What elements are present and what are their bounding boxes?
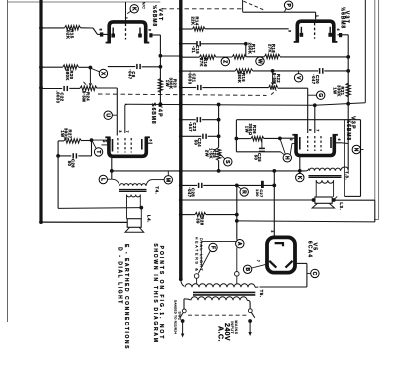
- wire R24 wiper arrow: [84, 68, 93, 87]
- speaker L3: [312, 197, 334, 208]
- label R25 1.5K 2W: [204, 148, 217, 159]
- wire feedback down: [57, 156, 59, 209]
- wire tuning post: [242, 0, 244, 12]
- node junction bus2-R14: [179, 27, 183, 31]
- wire T5 primary right down: [249, 302, 251, 309]
- label V3T: [344, 11, 350, 24]
- capacitor C6: [137, 64, 140, 69]
- label T4: [155, 186, 160, 194]
- wire heater column: [236, 185, 238, 239]
- resistor R23: [158, 79, 162, 93]
- node junction heatercol top: [235, 184, 239, 188]
- capacitor C28: [199, 183, 202, 188]
- border top edge line: [8, 1, 160, 3]
- label R14 22K: [191, 16, 200, 25]
- wire R22 to V3P grid corner: [278, 88, 308, 133]
- wire T5 primary left down: [183, 299, 185, 309]
- wire X to C6: [108, 66, 136, 68]
- switch SW2 left contact: [180, 309, 186, 318]
- label C25 50: [253, 153, 262, 162]
- svg-text:T: T: [95, 150, 101, 153]
- svg-text:C20: C20: [315, 75, 320, 84]
- wire R17 to R18: [246, 56, 264, 58]
- border left edge line: [7, 0, 9, 322]
- node M: [164, 171, 172, 184]
- svg-text:9: 9: [148, 29, 152, 31]
- node junction L3 right: [332, 198, 336, 202]
- node K top: [127, 5, 138, 14]
- svg-text:C6: C6: [131, 71, 136, 77]
- tube V3T cathode electrode: [300, 27, 304, 37]
- transformer T5 core: [193, 292, 255, 295]
- node junction bus2-R19: [179, 69, 183, 73]
- wire R15 left lead: [41, 27, 65, 29]
- svg-text:½6BM8: ½6BM8: [345, 119, 352, 141]
- label V4P type half 6BM8: [150, 102, 157, 124]
- potentiometer R22: [269, 85, 278, 89]
- node junction bus2-C23: [179, 118, 183, 122]
- capacitor C26 50: [73, 153, 76, 159]
- label SW2 GANGED: [173, 300, 181, 334]
- capacitor C24 50: [203, 134, 206, 139]
- svg-text:C: C: [311, 272, 317, 276]
- tube V5 anode electrode: [275, 243, 283, 246]
- wire C21 to R22: [202, 87, 268, 89]
- wire mains right arrow: [248, 321, 251, 336]
- svg-text:HEATERS &: HEATERS &: [194, 237, 198, 273]
- node junction bus2-screen wire: [179, 102, 183, 106]
- svg-text:W: W: [256, 59, 262, 64]
- label L4: [147, 215, 152, 223]
- pin number 1 of V3T: [315, 15, 319, 17]
- transformer T4 core: [119, 190, 147, 192]
- pin pad V4T pin 9: [149, 33, 152, 37]
- node junction bus2-C24: [179, 134, 183, 138]
- pin number 3 of V5: [270, 230, 274, 232]
- wire R19 to C20: [253, 70, 318, 72]
- wire R27 left corner: [58, 141, 64, 156]
- svg-text:6: 6: [336, 29, 340, 31]
- wire C22 left lead: [41, 88, 62, 90]
- svg-text:1W: 1W: [165, 80, 170, 87]
- wire C28 left lead: [181, 184, 197, 186]
- wire C28 to V5 rail: [203, 184, 274, 186]
- transformer T5 secondary: [181, 279, 307, 287]
- wire R16 to R17: [216, 56, 232, 58]
- svg-text:2: 2: [102, 140, 106, 142]
- label C24 50: [193, 138, 202, 147]
- label T3: [345, 171, 350, 180]
- svg-text:A: A: [236, 242, 242, 246]
- node junction mains left: [181, 319, 185, 323]
- node junction gnd-bus2: [179, 169, 183, 173]
- wire C20 to anode rail: [324, 70, 348, 72]
- capacitor C25 50: [259, 139, 265, 152]
- pin number 6 of V3P: [337, 139, 341, 141]
- svg-text:½6BM8: ½6BM8: [150, 102, 157, 124]
- pin number 7 of V5: [256, 260, 260, 262]
- note POINTS ON FIG.1: [158, 246, 164, 341]
- svg-text:N: N: [353, 148, 359, 152]
- capacitor C21: [198, 85, 201, 90]
- switch SW2 right contact: [248, 309, 254, 318]
- wire V4P anode pin stub: [146, 142, 152, 144]
- svg-text:100: 100: [255, 189, 259, 197]
- wire cathode pin wire: [92, 140, 112, 145]
- resistor R19: [235, 69, 253, 73]
- wire link down to g2 wire: [245, 44, 247, 57]
- svg-text:C28: C28: [191, 188, 196, 197]
- node junction R26-H: [278, 137, 282, 141]
- tube V4P grid dashed electrodes: [118, 138, 131, 153]
- wire screen feed long: [125, 103, 365, 106]
- svg-text:D - DIAL LIGHT: D - DIAL LIGHT: [117, 247, 123, 305]
- wire C21 left lead: [181, 87, 196, 89]
- svg-text:C25: C25: [257, 153, 262, 162]
- svg-text:H: H: [284, 156, 290, 160]
- node junction mains right: [248, 319, 252, 323]
- wire V3T anode to T3 rail: [337, 35, 348, 171]
- svg-text:R19: R19: [241, 73, 246, 82]
- svg-text:R20: R20: [69, 70, 74, 79]
- tube V4P envelope half-6BM8: [105, 137, 150, 156]
- wire C6 to anode rail: [142, 66, 161, 68]
- node junction C19-R17 link: [244, 42, 248, 46]
- node junction bus2-C28: [179, 184, 183, 188]
- pin pad V3T pin 6: [339, 33, 342, 37]
- svg-text:8: 8: [98, 29, 102, 31]
- svg-text:C21: C21: [191, 73, 196, 82]
- transformer T4 primary: [112, 179, 164, 186]
- note D DIAL LIGHT: [117, 247, 123, 305]
- node junction bus2 y56: [179, 54, 183, 58]
- node Z: [221, 57, 229, 65]
- node junction plate-rail y71: [346, 69, 350, 73]
- svg-text:6: 6: [149, 139, 153, 141]
- label R16 27K: [199, 58, 208, 67]
- svg-text:R28: R28: [199, 216, 204, 225]
- tube V4T envelope half-6BM8: [106, 22, 150, 43]
- wire V4T anode to down-rail: [153, 35, 161, 104]
- svg-text:R16: R16: [203, 58, 208, 67]
- label R21 330K 1W: [332, 85, 345, 97]
- speaker L4: [125, 219, 144, 233]
- svg-text:M: M: [165, 178, 171, 182]
- svg-text:R17: R17: [251, 44, 256, 53]
- svg-text:K: K: [296, 176, 302, 180]
- node junction bus2-C19: [179, 42, 183, 46]
- label V5: [312, 243, 318, 252]
- wire screen box top: [236, 119, 360, 121]
- pin number 9 of V3T: [288, 30, 292, 32]
- node B: [243, 265, 265, 274]
- wire speaker return right: [237, 200, 375, 222]
- resistor R27: [64, 139, 82, 143]
- node N: [352, 145, 363, 153]
- wire right loop down: [360, 120, 362, 197]
- wire A stub: [237, 240, 238, 241]
- wire grid top wire V3T: [243, 12, 316, 19]
- label N/C: [142, 2, 146, 9]
- wire screen to V3P pin 7: [314, 105, 316, 133]
- label R24 0.5M: [82, 91, 91, 102]
- wire R22 wiper arrow: [271, 71, 274, 86]
- resistor R17: [232, 55, 246, 59]
- svg-text:R26: R26: [252, 125, 257, 134]
- svg-text:R27: R27: [67, 129, 72, 138]
- wire V3P bottom pin: [299, 156, 301, 174]
- svg-text:R24: R24: [85, 92, 90, 101]
- label V3P: [350, 116, 356, 130]
- svg-text:6CA4: 6CA4: [307, 241, 313, 258]
- svg-text:N/C: N/C: [142, 2, 146, 9]
- svg-text:R: R: [241, 190, 247, 194]
- wire C23 left lead: [181, 119, 196, 121]
- label C28 .047: [187, 187, 196, 197]
- svg-text:L3.: L3.: [339, 202, 344, 210]
- label V4P: [157, 104, 163, 118]
- svg-text:7: 7: [256, 260, 260, 262]
- svg-text:2: 2: [289, 139, 293, 141]
- label C19 .01: [191, 45, 200, 54]
- svg-text:C24: C24: [197, 138, 202, 147]
- node junction screen-R25 branch: [217, 103, 221, 107]
- node junction box-R26: [235, 137, 239, 141]
- heater terminal left: [194, 274, 199, 284]
- svg-text:R15: R15: [69, 29, 74, 39]
- capacitor C23: [197, 117, 200, 122]
- wire C22 to R24: [69, 87, 80, 89]
- pin number 7 of V3P: [316, 129, 320, 131]
- wire C19 left lead: [181, 43, 197, 45]
- wire HT to V5 anode: [273, 171, 275, 238]
- svg-text:3: 3: [118, 130, 122, 132]
- dashed SW2 gang link: [188, 314, 247, 316]
- svg-text:T4.: T4.: [155, 186, 160, 194]
- node H: [280, 138, 292, 162]
- capacitor C27 100: [255, 181, 263, 198]
- svg-text:INPUT: INPUT: [230, 321, 234, 335]
- tube V4T grid dashed electrode: [125, 24, 127, 40]
- tube V3T anode electrode: [328, 27, 332, 37]
- wire right loop bottom: [334, 196, 361, 199]
- label V5 type 6CA4: [307, 241, 313, 258]
- node junction heatercol-R28: [235, 213, 239, 217]
- wire R25 to ground wire: [218, 161, 220, 171]
- label R26 390 1W: [244, 123, 257, 135]
- transformer T4 secondary: [127, 195, 142, 219]
- pin number 1 of V4T: [124, 17, 128, 19]
- potentiometer R24: [80, 86, 97, 91]
- label V3P type half 6BM8: [345, 119, 352, 141]
- node W: [256, 57, 264, 65]
- pin number 2 of V3P: [289, 139, 293, 141]
- wire ground HT long: [112, 170, 306, 172]
- wire R26 into V3P: [280, 137, 294, 139]
- resistor R25: [216, 148, 220, 161]
- wire R27 right lead: [82, 140, 92, 142]
- wire right loop left edge: [344, 120, 346, 197]
- pin pad V4T pin 8: [100, 32, 103, 36]
- tube V3P envelope half-6BM8: [292, 135, 338, 156]
- pin number 7 of V4P: [125, 131, 129, 133]
- svg-text:½6BM8: ½6BM8: [340, 7, 347, 29]
- wire C26 left lead: [58, 155, 71, 157]
- tube V4T cathode electrode: [111, 28, 115, 38]
- wire screen box left: [235, 120, 237, 152]
- heater terminal right: [235, 272, 240, 285]
- svg-text:DIAL LIGHT: DIAL LIGHT: [199, 238, 203, 272]
- label R17 250K: [247, 43, 256, 55]
- label L3: [339, 202, 344, 210]
- wire R24 to grid corner: [97, 88, 117, 115]
- wire V5 cathode out: [260, 263, 307, 287]
- wire R20 to wiper junction: [79, 66, 91, 68]
- svg-text:9: 9: [308, 129, 312, 131]
- label C22 .0033: [55, 91, 64, 104]
- label R18 27K: [267, 44, 276, 53]
- node junction C6-anode-rail: [159, 65, 163, 69]
- label R22 0.5M: [272, 73, 281, 84]
- svg-text:½6BM8: ½6BM8: [151, 5, 158, 27]
- dashed tuning gang line: [162, 8, 243, 10]
- svg-text:V4T: V4T: [157, 8, 163, 21]
- tube V5 6CA4 envelope: [267, 237, 295, 272]
- svg-text:7: 7: [316, 129, 320, 131]
- label R28 39: [195, 216, 204, 225]
- svg-text:R22: R22: [276, 74, 281, 83]
- node junction C26 left: [56, 154, 60, 158]
- node junction anode-rail upper: [159, 54, 163, 58]
- wire bus1 end to L4: [39, 220, 127, 224]
- node junction bus2-C21: [179, 86, 183, 90]
- node junction return-heater: [235, 219, 239, 223]
- pin number 6 of V4P: [149, 139, 153, 141]
- node C: [307, 269, 319, 277]
- node S: [219, 154, 232, 167]
- label C23 .047: [188, 122, 197, 132]
- svg-text:SHOWN IN THIS DIAGRAM: SHOWN IN THIS DIAGRAM: [152, 243, 158, 343]
- node junction bus1-C22: [39, 86, 43, 90]
- resistor R26: [236, 136, 264, 140]
- wire R15 to V4T cathode pin 8: [81, 28, 108, 35]
- node V: [294, 71, 302, 82]
- pin number 6 of V3T: [336, 29, 340, 31]
- label V4T type half 6BM8: [151, 5, 158, 27]
- pin number 8 of V4T: [98, 29, 102, 31]
- label C21 .0033: [187, 72, 196, 85]
- transformer T3 core: [309, 176, 342, 178]
- svg-text:1: 1: [124, 17, 128, 19]
- wire R26 to H junction: [264, 137, 280, 139]
- node A: [236, 240, 244, 272]
- svg-text:G: G: [317, 93, 323, 97]
- wire R18 to anode rail V3: [280, 56, 348, 58]
- transformer T3 primary: [306, 167, 349, 171]
- node T: [93, 142, 103, 157]
- svg-text:L: L: [100, 178, 106, 181]
- dashed gang line R24 to R22: [98, 90, 277, 95]
- label R15 20K: [66, 28, 75, 39]
- tube V3P grid dashed electrodes: [308, 136, 321, 151]
- wire mains left arrow: [181, 321, 184, 338]
- node junction R20-wiper: [89, 66, 93, 70]
- svg-text:3: 3: [270, 230, 274, 232]
- wire grid drop to V4P pin 3: [116, 115, 118, 135]
- svg-text:6: 6: [337, 139, 341, 141]
- wire R28 left lead: [181, 214, 195, 216]
- node junction screen-V3P pin7: [313, 103, 317, 107]
- svg-text:F: F: [209, 246, 215, 249]
- pin number 2 of V4P: [102, 140, 106, 142]
- tube V4T anode electrode: [138, 28, 142, 38]
- svg-text:L4.: L4.: [147, 215, 152, 223]
- label R20 680K: [65, 69, 74, 81]
- node X: [92, 69, 108, 78]
- wire bus2 to L3 long: [181, 199, 314, 201]
- note E EARTHED CONNECTIONS: [123, 244, 129, 350]
- resistor R18: [265, 54, 281, 58]
- wire screen corner to V4P pin 7: [125, 104, 127, 133]
- label R23 330K 1W: [165, 78, 178, 90]
- node junction gnd-V4P: [110, 169, 114, 173]
- node junction R22 wiper top: [271, 69, 275, 73]
- svg-text:7: 7: [125, 131, 129, 133]
- wire box bottom: [236, 152, 284, 155]
- node junction branch-C23: [217, 118, 221, 122]
- svg-text:9: 9: [288, 30, 292, 32]
- wire V3P anode pin stub: [334, 142, 348, 145]
- svg-text:A.C.: A.C.: [216, 326, 223, 342]
- wire C26 right lead: [78, 140, 91, 156]
- node junction bus2-y200: [179, 198, 183, 202]
- resistor R20: [63, 65, 79, 69]
- wire bus B+ center rail: [179, 0, 182, 280]
- wire C23 to branch: [202, 119, 219, 121]
- label V4T: [157, 8, 163, 21]
- node junction bus2 end-T5: [179, 277, 183, 281]
- label 240V AC: [216, 323, 230, 342]
- tube V5 cathode ticks: [269, 261, 292, 268]
- label R27 390 1W: [60, 128, 73, 140]
- border right outer line: [374, 0, 379, 220]
- resistor R16: [199, 55, 216, 59]
- svg-text:Z: Z: [222, 60, 228, 63]
- label C6 .047: [127, 69, 136, 79]
- node junction bus1-R15: [39, 26, 43, 30]
- tube V3T grid dashed electrode: [314, 23, 316, 39]
- svg-text:1W: 1W: [332, 87, 337, 94]
- resistor R15: [65, 26, 81, 30]
- svg-text:C27: C27: [259, 189, 263, 197]
- label MAINS INPUT: [230, 320, 238, 334]
- svg-text:E - EARTHED CONNECTIONS: E - EARTHED CONNECTIONS: [123, 244, 129, 350]
- transformer T5 primary: [184, 297, 250, 302]
- node F: [198, 243, 217, 273]
- resistor R14: [193, 27, 206, 31]
- svg-text:T.3.: T.3.: [345, 171, 350, 180]
- tube V3T envelope half-6BM8: [294, 21, 338, 42]
- svg-text:R18: R18: [271, 44, 276, 53]
- wire bus2 to R16: [181, 56, 200, 58]
- dashed tuning diagonal: [244, 1, 264, 10]
- wire C24 left lead: [181, 135, 202, 137]
- svg-text:R14: R14: [195, 16, 200, 25]
- wire bus B+ left rail: [39, 0, 42, 222]
- capacitor C22: [64, 86, 67, 91]
- svg-text:C23: C23: [192, 122, 197, 131]
- wire V4T grid top lead: [125, 2, 127, 22]
